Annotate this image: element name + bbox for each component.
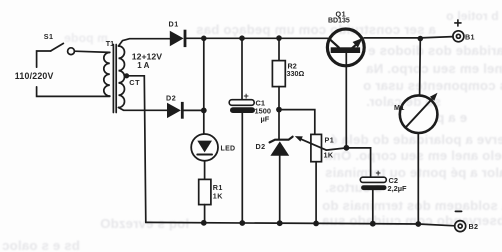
svg-text:330Ω: 330Ω xyxy=(287,69,305,78)
svg-text:1K: 1K xyxy=(213,192,223,201)
transistor Q1 collector stroke xyxy=(329,39,338,48)
wire C1 to bottom rail xyxy=(241,113,243,223)
transformer T1 secondary winding xyxy=(119,46,125,108)
resistor R2 xyxy=(272,61,285,87)
wire zener to bottom rail xyxy=(279,156,281,223)
wire R2 to zener node xyxy=(278,87,280,140)
svg-text:B2: B2 xyxy=(469,222,479,231)
node top rail / M1 column xyxy=(418,36,424,42)
label C2 plus xyxy=(376,168,381,178)
label T1 xyxy=(106,39,114,48)
wire R2 column upper xyxy=(278,38,280,61)
svg-text:110/220V: 110/220V xyxy=(15,71,54,81)
svg-text:M1: M1 xyxy=(394,103,405,112)
label 12+12V xyxy=(132,52,162,62)
label D2 zener xyxy=(256,142,266,151)
label C1 xyxy=(256,98,265,107)
svg-text:CT: CT xyxy=(129,78,140,87)
svg-text:D2: D2 xyxy=(256,142,266,151)
svg-text:1K: 1K xyxy=(324,150,334,159)
label S1 xyxy=(44,32,54,41)
zener diode D2 body xyxy=(270,141,289,155)
transistor Q1 circle xyxy=(327,29,364,66)
node bottom rail / C2 column xyxy=(370,221,376,227)
svg-text:D2: D2 xyxy=(166,93,176,102)
wire zener node to P1 top xyxy=(279,110,315,135)
faint page bleed-through text (decorative background) xyxy=(64,31,108,45)
label Q1 xyxy=(336,9,347,18)
svg-text:BD135: BD135 xyxy=(328,18,350,25)
diode D2 (rectifier) xyxy=(167,102,184,119)
svg-text:LED: LED xyxy=(221,145,236,152)
wire secondary bottom lead to D2 xyxy=(119,108,168,111)
svg-text:1 A: 1 A xyxy=(137,61,149,70)
node zener / P1 junction xyxy=(276,107,282,113)
label uF C1 xyxy=(261,115,270,124)
label CT xyxy=(129,78,140,87)
terminal B1 plus sign xyxy=(455,20,461,26)
label R1 1K xyxy=(213,192,223,201)
svg-text:+: + xyxy=(244,91,249,101)
node top rail / LED column xyxy=(201,36,207,42)
wire D1 cathode to Q1 xyxy=(186,37,327,39)
svg-text:S1: S1 xyxy=(44,32,54,41)
label D1 xyxy=(169,20,179,29)
wire primary loop xyxy=(37,51,110,96)
svg-text:2,2µF: 2,2µF xyxy=(388,184,408,193)
node top rail / R2 column xyxy=(276,35,282,41)
capacitor C1 positive plate xyxy=(229,100,254,106)
label C2 xyxy=(389,176,398,185)
node bottom rail / zener column xyxy=(277,220,283,226)
label 1A xyxy=(137,61,149,70)
wire base node to wiper and C2 xyxy=(326,148,370,177)
transistor Q1 emitter arrow xyxy=(352,38,363,49)
switch S1 arm xyxy=(51,43,64,51)
svg-text:+: + xyxy=(376,168,381,178)
label 1500 xyxy=(255,107,271,116)
diode D1 xyxy=(170,30,187,47)
node bottom rail / M1 column xyxy=(415,221,421,227)
node CT tap dot xyxy=(124,73,129,78)
wire Q1 base to node xyxy=(345,53,347,148)
potentiometer P1 wiper arrow xyxy=(295,136,326,150)
resistor R1 xyxy=(199,179,211,204)
potentiometer P1 body xyxy=(311,134,322,161)
meter M1 needle xyxy=(407,93,438,127)
capacitor C1 negative plate xyxy=(230,107,255,113)
LED cathode bar xyxy=(197,154,212,156)
wire M1 column upper xyxy=(419,39,422,96)
switch S1 contact circle xyxy=(68,48,75,55)
label BD135 xyxy=(328,18,350,25)
terminal B2 minus sign xyxy=(455,210,461,212)
node base junction xyxy=(344,145,350,151)
terminal B1 xyxy=(453,31,464,42)
svg-text:P1: P1 xyxy=(325,136,335,145)
label B2 xyxy=(469,222,479,231)
wire switch to transformer primary xyxy=(75,51,110,52)
transformer T1 core xyxy=(113,45,116,113)
LED circle xyxy=(191,134,218,161)
wire C1 column upper xyxy=(241,38,243,99)
wire bottom rail xyxy=(146,222,455,225)
node top rail / C1 column xyxy=(239,35,245,41)
svg-text:B1: B1 xyxy=(465,32,475,41)
label 2,2uF xyxy=(388,184,408,193)
node bottom rail / P1 column xyxy=(313,221,319,227)
label 330 ohm xyxy=(287,69,305,78)
capacitor C2 negative plate xyxy=(361,185,386,190)
label B1 xyxy=(465,32,475,41)
label P1 1K xyxy=(324,150,334,159)
wire M1 to bottom rail xyxy=(417,133,419,224)
label R1 xyxy=(213,183,223,192)
svg-text:R1: R1 xyxy=(213,183,223,192)
svg-text:D1: D1 xyxy=(169,20,179,29)
label C1 plus xyxy=(244,91,249,101)
wire CT to bottom rail xyxy=(127,76,146,223)
wire LED to R1 xyxy=(204,161,206,180)
meter M1 circle xyxy=(400,95,438,133)
wire LED column upper xyxy=(203,38,205,134)
LED chip triangle xyxy=(197,141,212,153)
transistor Q1 base bar xyxy=(331,47,360,53)
label D2 rectifier xyxy=(166,93,176,102)
wire R1 to bottom rail xyxy=(204,205,206,223)
wire secondary top lead to D1 xyxy=(119,39,170,46)
wire D2 cathode to LED column xyxy=(184,109,204,111)
label 110/220V xyxy=(15,71,54,81)
wire Q1 emitter to B1 xyxy=(364,37,453,38)
wire P1 to bottom rail xyxy=(315,162,317,224)
terminal B2 xyxy=(455,221,466,232)
svg-text:T1: T1 xyxy=(106,39,114,48)
label M1 xyxy=(394,103,405,112)
label R2 xyxy=(288,62,297,71)
zener diode D2 cathode bar xyxy=(270,137,293,143)
node D2 junction xyxy=(201,108,207,114)
label LED xyxy=(221,145,236,152)
node bottom rail / C1 column xyxy=(239,220,245,226)
wire C2 to bottom rail xyxy=(372,190,374,224)
transformer T1 primary winding xyxy=(104,52,110,96)
node bottom rail / LED column xyxy=(201,220,207,226)
capacitor C2 positive plate xyxy=(360,177,386,182)
label P1 xyxy=(325,136,335,145)
svg-text:µF: µF xyxy=(261,115,270,124)
